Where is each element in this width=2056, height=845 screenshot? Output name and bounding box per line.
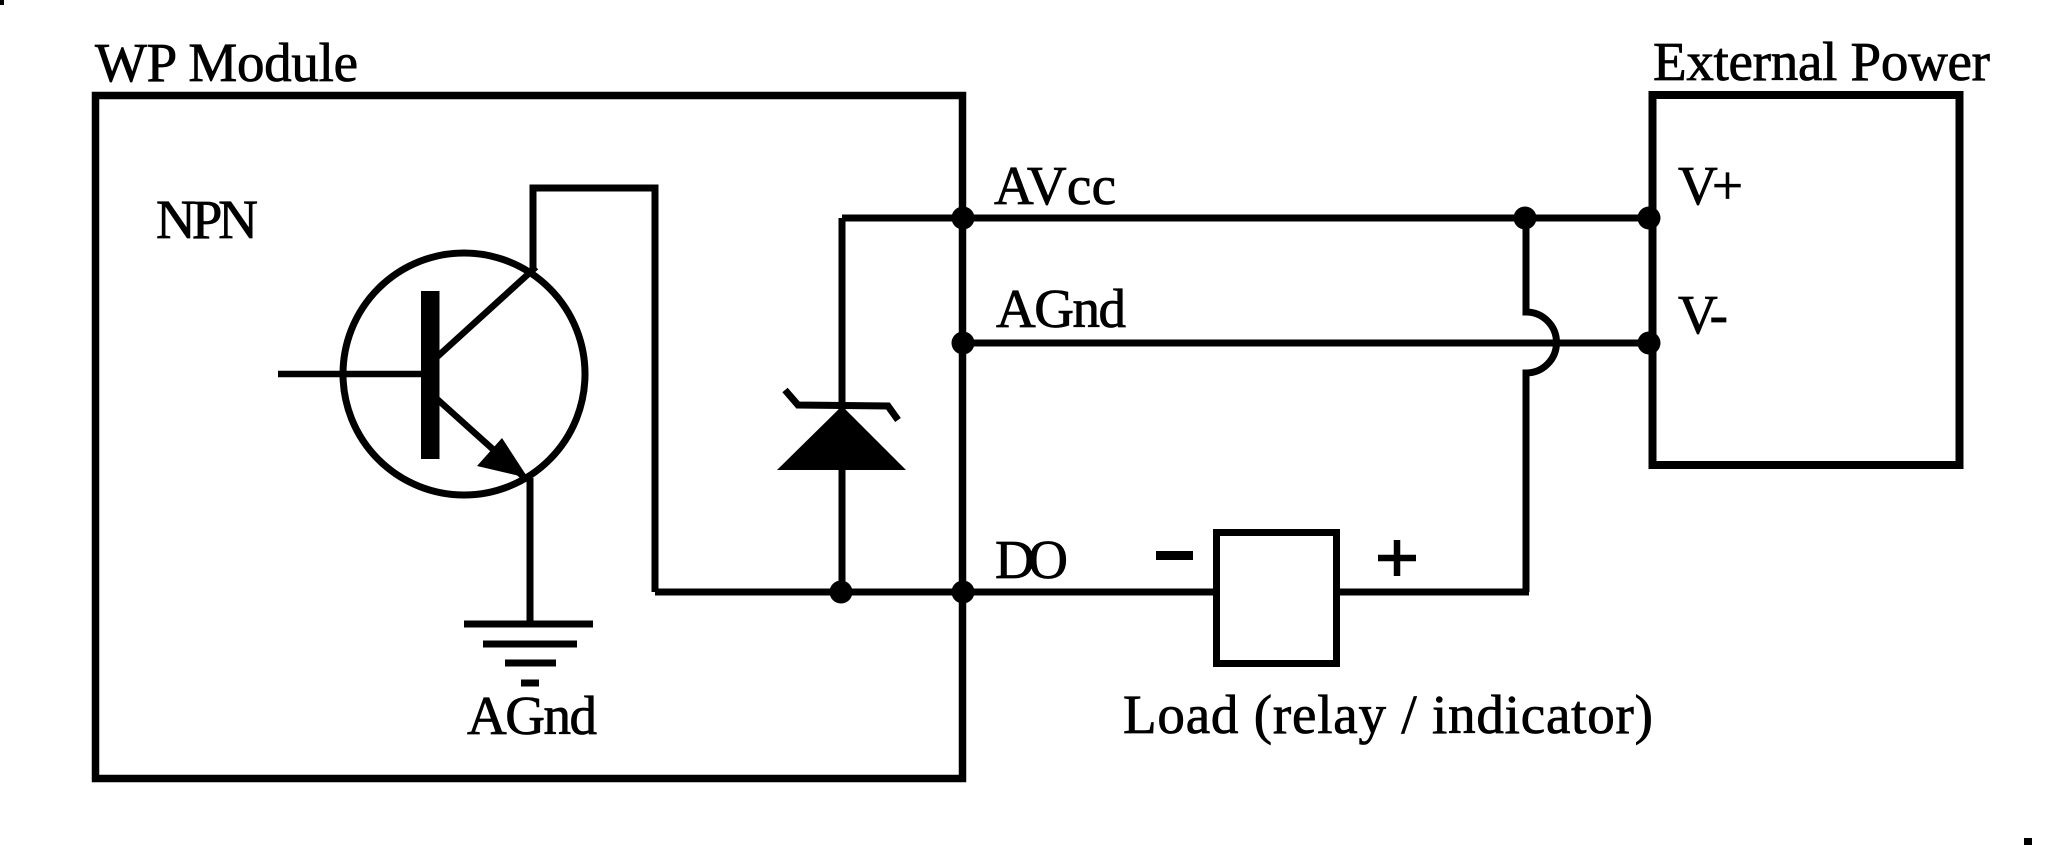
base lead wire: [278, 371, 422, 378]
riser wire with hop over AGnd: [1526, 218, 1556, 592]
TVS diode D1 vertical wire: [839, 218, 846, 592]
junction node riser top on AVcc wire: [1514, 207, 1537, 230]
svg-text:V+: V+: [1678, 155, 1743, 216]
svg-text:Load (relay / indicator): Load (relay / indicator): [1123, 684, 1653, 745]
scan artifact top-left corner: [0, 0, 4, 5]
DO wire: [655, 589, 1216, 596]
svg-text:AGnd: AGnd: [467, 685, 597, 746]
load minus sign: [1156, 551, 1193, 560]
junction node AVcc at module edge: [952, 207, 975, 230]
External Power box: [1653, 95, 1960, 465]
emitter arrowhead: [477, 438, 528, 478]
emitter wire down to ground: [527, 478, 534, 624]
transistor body circle: [343, 253, 585, 495]
svg-text:External Power: External Power: [1653, 31, 1990, 92]
TVS diode D1 triangle (anode): [777, 406, 906, 470]
junction node DO at module edge: [952, 581, 975, 604]
svg-text:AVcc: AVcc: [994, 155, 1116, 216]
svg-text:AGnd: AGnd: [996, 278, 1126, 339]
load plus sign: [1378, 540, 1416, 576]
junction node V+ terminal: [1638, 207, 1661, 230]
collector diagonal: [437, 267, 536, 357]
emitter diagonal: [437, 399, 527, 480]
svg-text:NPN: NPN: [156, 189, 258, 250]
transistor base bar: [421, 291, 440, 459]
svg-text:DO: DO: [995, 529, 1068, 590]
transistor Q1 (NPN): [278, 253, 585, 495]
TVS diode D1 cathode bar (zener style): [785, 390, 898, 420]
ground symbol: [464, 624, 593, 683]
scan artifact bottom-right corner: [2024, 838, 2032, 845]
junction node diode anode on DO wire: [830, 581, 853, 604]
junction node V- terminal: [1638, 332, 1661, 355]
WP Module box: [96, 96, 963, 779]
svg-text:WP Module: WP Module: [95, 32, 358, 93]
collector wire to DO rail: [533, 188, 655, 592]
wire load to riser: [1337, 589, 1529, 596]
load box: [1217, 533, 1337, 664]
AVcc wire: [842, 215, 1650, 222]
junction node AGnd at module edge: [952, 332, 975, 355]
svg-text:V-: V-: [1678, 284, 1728, 345]
AGnd wire: [963, 340, 1649, 347]
